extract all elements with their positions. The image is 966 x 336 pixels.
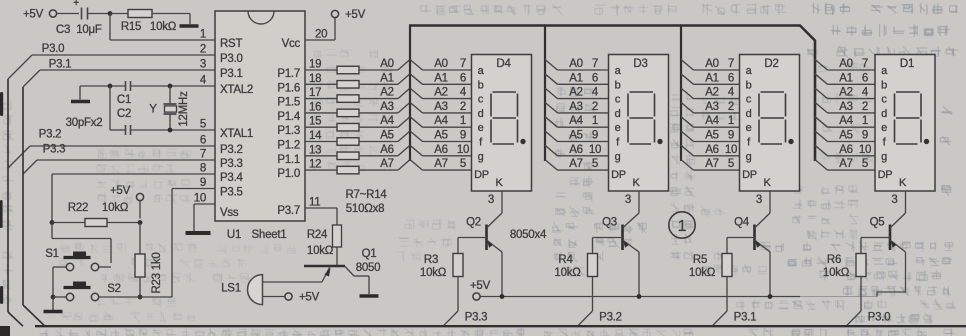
svg-text:g: g bbox=[881, 151, 887, 163]
svg-text:A1: A1 bbox=[839, 72, 853, 84]
svg-text:A7: A7 bbox=[569, 158, 583, 170]
transistor Q4 8050 bbox=[734, 213, 770, 297]
svg-text:e: e bbox=[615, 122, 621, 134]
svg-text:DP: DP bbox=[611, 169, 626, 181]
resistor R15 10k bbox=[121, 10, 190, 34]
svg-text:P3.1: P3.1 bbox=[734, 312, 757, 324]
wire P3.5 pin9 to S2 bbox=[172, 189, 215, 298]
svg-text:10: 10 bbox=[725, 144, 737, 156]
svg-text:9: 9 bbox=[460, 130, 466, 142]
svg-text:4: 4 bbox=[200, 75, 207, 87]
svg-text:P3.3: P3.3 bbox=[43, 144, 66, 156]
resistor R10 bbox=[305, 101, 410, 117]
svg-text:A0: A0 bbox=[434, 58, 448, 70]
svg-text:A2: A2 bbox=[380, 87, 394, 99]
bottom bus P3.0-P3.3 bbox=[35, 325, 966, 327]
7-segment display D1 bbox=[875, 55, 935, 192]
svg-text:DP: DP bbox=[742, 169, 757, 181]
svg-text:A1: A1 bbox=[380, 72, 394, 84]
svg-text:A2: A2 bbox=[434, 87, 448, 99]
svg-text:R4: R4 bbox=[558, 254, 573, 266]
svg-text:+5V: +5V bbox=[345, 9, 366, 21]
svg-text:c: c bbox=[746, 94, 752, 106]
wires bus to display D2 bbox=[681, 58, 740, 170]
svg-text:3: 3 bbox=[200, 59, 206, 71]
svg-text:10: 10 bbox=[859, 144, 871, 156]
svg-text:5: 5 bbox=[592, 158, 598, 170]
svg-text:16: 16 bbox=[309, 101, 321, 113]
svg-text:c: c bbox=[615, 94, 621, 106]
svg-text:10kΩ: 10kΩ bbox=[554, 267, 581, 279]
svg-text:3: 3 bbox=[756, 194, 762, 206]
svg-text:A5: A5 bbox=[380, 130, 394, 142]
svg-text:g: g bbox=[746, 151, 752, 163]
svg-text:P3.2: P3.2 bbox=[39, 129, 62, 141]
pin 3 stub D4 bbox=[488, 191, 502, 213]
svg-text:18: 18 bbox=[309, 73, 321, 85]
svg-text:6: 6 bbox=[592, 72, 598, 84]
wire P3.1 to bottom bus bbox=[712, 311, 756, 326]
svg-text:+5V: +5V bbox=[23, 9, 44, 21]
wire P3.2 to left bus bbox=[8, 129, 215, 169]
svg-text:10kΩ: 10kΩ bbox=[689, 267, 716, 279]
7-segment display D2 bbox=[740, 55, 800, 192]
svg-text:e: e bbox=[478, 122, 484, 134]
svg-text:A7: A7 bbox=[705, 158, 719, 170]
svg-text:10kΩ: 10kΩ bbox=[307, 245, 334, 257]
ground (Q1 collector) bbox=[360, 294, 379, 298]
transistor Q1 8050 bbox=[304, 248, 380, 294]
svg-text:A3: A3 bbox=[434, 101, 448, 113]
pushbutton S1 bbox=[45, 248, 111, 297]
svg-text:4: 4 bbox=[862, 87, 869, 99]
svg-text:A5: A5 bbox=[705, 130, 719, 142]
svg-text:C2: C2 bbox=[117, 108, 131, 120]
svg-text:D4: D4 bbox=[496, 58, 511, 70]
svg-text:P3.0: P3.0 bbox=[42, 43, 65, 55]
+5V rail for digit drivers bbox=[470, 280, 877, 300]
svg-text:Q4: Q4 bbox=[734, 217, 750, 229]
resistor R6 10k bbox=[823, 238, 890, 312]
svg-text:A2: A2 bbox=[839, 87, 853, 99]
svg-text:XTAL1: XTAL1 bbox=[220, 128, 253, 140]
svg-text:3: 3 bbox=[488, 194, 494, 206]
svg-text:19: 19 bbox=[309, 59, 321, 71]
resistor R14 bbox=[305, 158, 410, 174]
svg-text:A0: A0 bbox=[380, 58, 394, 70]
scan artifacts left edge bbox=[0, 92, 10, 336]
svg-text:15: 15 bbox=[309, 116, 321, 128]
svg-text:+5V: +5V bbox=[110, 185, 131, 197]
svg-text:A4: A4 bbox=[839, 115, 853, 127]
svg-text:d: d bbox=[881, 108, 887, 120]
node P3.1 wire bbox=[23, 59, 215, 88]
svg-text:A6: A6 bbox=[380, 144, 394, 156]
svg-text:4: 4 bbox=[460, 87, 467, 99]
svg-text:8050x4: 8050x4 bbox=[510, 229, 547, 241]
resistor R7 bbox=[305, 58, 410, 74]
capacitor C3 10uF bbox=[56, 0, 110, 36]
resistor R8 bbox=[305, 72, 410, 88]
svg-text:Sheet1: Sheet1 bbox=[252, 229, 287, 241]
resistor R13 bbox=[305, 144, 410, 160]
transistor Q2 8050 bbox=[466, 213, 502, 297]
svg-text:A4: A4 bbox=[569, 115, 583, 127]
svg-text:A4: A4 bbox=[380, 115, 394, 127]
label 8050x4 bbox=[510, 229, 547, 241]
svg-text:C3: C3 bbox=[56, 24, 70, 36]
svg-text:A6: A6 bbox=[569, 144, 583, 156]
svg-text:P3.3: P3.3 bbox=[465, 312, 488, 324]
resistor R3 10k bbox=[420, 238, 487, 312]
svg-text:b: b bbox=[615, 79, 621, 91]
svg-text:10kΩ: 10kΩ bbox=[102, 202, 129, 214]
resistor R11 bbox=[305, 115, 410, 131]
svg-text:A1: A1 bbox=[705, 72, 719, 84]
svg-text:R24: R24 bbox=[307, 229, 328, 241]
svg-text:A3: A3 bbox=[569, 101, 583, 113]
svg-text:Q1: Q1 bbox=[362, 248, 377, 260]
svg-text:P1.1: P1.1 bbox=[277, 154, 300, 166]
svg-text:7: 7 bbox=[862, 58, 868, 70]
svg-text:10μF: 10μF bbox=[76, 24, 102, 36]
svg-text:4: 4 bbox=[728, 87, 735, 99]
capacitor C2 30pF bbox=[66, 108, 132, 135]
svg-text:R22: R22 bbox=[68, 202, 88, 214]
svg-text:9: 9 bbox=[592, 130, 598, 142]
svg-text:Vcc: Vcc bbox=[282, 38, 301, 50]
7-segment display D3 bbox=[609, 55, 669, 192]
7-segment display D4 bbox=[472, 55, 532, 192]
label R7~R14 510ohm x8 bbox=[345, 189, 387, 215]
svg-text:S1: S1 bbox=[45, 248, 59, 260]
resistor R24 10k bbox=[307, 225, 342, 265]
svg-text:P1.4: P1.4 bbox=[277, 111, 301, 123]
svg-text:+5V: +5V bbox=[299, 292, 320, 304]
svg-text:7: 7 bbox=[200, 149, 206, 161]
svg-text:4: 4 bbox=[592, 87, 599, 99]
svg-text:P1.6: P1.6 bbox=[277, 82, 300, 94]
svg-text:P3.2: P3.2 bbox=[220, 144, 243, 156]
svg-text:D1: D1 bbox=[900, 58, 914, 70]
pin 3 stub D2 bbox=[756, 191, 770, 213]
svg-text:A0: A0 bbox=[569, 58, 583, 70]
svg-text:A0: A0 bbox=[839, 58, 853, 70]
svg-text:10: 10 bbox=[589, 144, 601, 156]
svg-text:+5V: +5V bbox=[470, 280, 491, 292]
power +5V (reset network) bbox=[23, 9, 79, 21]
svg-text:e: e bbox=[746, 122, 752, 134]
svg-text:10kΩ: 10kΩ bbox=[823, 267, 850, 279]
svg-text:c: c bbox=[478, 94, 484, 106]
svg-text:9: 9 bbox=[200, 177, 206, 189]
svg-text:K: K bbox=[495, 177, 503, 189]
svg-text:2: 2 bbox=[862, 101, 868, 113]
svg-text:A2: A2 bbox=[569, 87, 583, 99]
transistor Q5 8050 bbox=[870, 213, 906, 297]
svg-text:1: 1 bbox=[862, 115, 868, 127]
svg-text:P3.4: P3.4 bbox=[220, 172, 244, 184]
svg-text:12MHz: 12MHz bbox=[178, 91, 190, 127]
svg-text:A3: A3 bbox=[380, 101, 394, 113]
svg-text:P3.0: P3.0 bbox=[220, 53, 243, 65]
svg-text:1: 1 bbox=[728, 115, 734, 127]
svg-text:R7~R14: R7~R14 bbox=[345, 189, 387, 201]
speaker LS1 bbox=[221, 275, 322, 305]
svg-text:14: 14 bbox=[309, 130, 322, 142]
svg-text:S2: S2 bbox=[107, 283, 121, 295]
svg-text:6: 6 bbox=[200, 135, 206, 147]
crystal Y 12MHz bbox=[149, 91, 190, 130]
svg-text:A0: A0 bbox=[705, 58, 719, 70]
ground (crystal) bbox=[71, 100, 90, 104]
svg-text:Y: Y bbox=[149, 104, 157, 116]
svg-text:9: 9 bbox=[728, 130, 734, 142]
svg-text:P3.7: P3.7 bbox=[277, 205, 300, 217]
svg-text:11: 11 bbox=[309, 197, 320, 209]
bus column 3 bbox=[680, 26, 682, 162]
svg-text:RST: RST bbox=[220, 38, 242, 50]
svg-text:P3.3: P3.3 bbox=[220, 158, 243, 170]
svg-text:A7: A7 bbox=[839, 158, 853, 170]
svg-text:A5: A5 bbox=[569, 130, 583, 142]
svg-text:A2: A2 bbox=[705, 87, 719, 99]
svg-text:P3.1: P3.1 bbox=[220, 68, 243, 80]
svg-text:8: 8 bbox=[200, 163, 206, 175]
svg-text:3: 3 bbox=[625, 194, 631, 206]
bus column 2 bbox=[544, 26, 546, 162]
svg-text:20: 20 bbox=[315, 29, 327, 41]
svg-text:e: e bbox=[881, 122, 887, 134]
wire P3.4 pin8 to R22/S1 bbox=[52, 174, 215, 223]
svg-text:DP: DP bbox=[474, 169, 489, 181]
svg-text:A5: A5 bbox=[839, 130, 853, 142]
wire R22 node to S1 bbox=[52, 223, 111, 264]
svg-text:7: 7 bbox=[728, 58, 734, 70]
resistor R5 10k bbox=[689, 238, 755, 312]
svg-text:10kΩ: 10kΩ bbox=[150, 21, 177, 33]
svg-text:g: g bbox=[478, 151, 484, 163]
svg-text:P1.2: P1.2 bbox=[277, 140, 300, 152]
svg-text:1: 1 bbox=[460, 115, 466, 127]
wire Vss pin10 to ground bbox=[194, 204, 215, 231]
svg-text:D2: D2 bbox=[764, 58, 778, 70]
svg-text:c: c bbox=[881, 94, 887, 106]
svg-text:5: 5 bbox=[460, 158, 466, 170]
wire P3.7 pin11 to R24 bbox=[305, 208, 337, 225]
svg-text:b: b bbox=[478, 79, 484, 91]
resistor R4 10k bbox=[554, 238, 622, 312]
capacitor C1 30pF bbox=[117, 81, 131, 106]
svg-text:LS1: LS1 bbox=[221, 283, 241, 295]
svg-text:K: K bbox=[632, 177, 640, 189]
svg-text:A6: A6 bbox=[434, 144, 448, 156]
svg-text:5: 5 bbox=[728, 158, 734, 170]
svg-text:2: 2 bbox=[592, 101, 598, 113]
svg-text:3: 3 bbox=[891, 194, 897, 206]
svg-text:R6: R6 bbox=[827, 254, 841, 266]
svg-text:+: + bbox=[73, 0, 79, 9]
svg-text:P3.2: P3.2 bbox=[599, 312, 622, 324]
node P3.0 wire bbox=[8, 43, 215, 79]
svg-text:6: 6 bbox=[460, 72, 466, 84]
svg-text:P3.0: P3.0 bbox=[868, 312, 891, 324]
svg-text:D3: D3 bbox=[633, 58, 647, 70]
svg-text:A4: A4 bbox=[705, 115, 719, 127]
transistor Q3 8050 bbox=[602, 213, 639, 297]
svg-text:XTAL2: XTAL2 bbox=[220, 84, 253, 96]
svg-text:Q2: Q2 bbox=[466, 217, 481, 229]
svg-text:P1.5: P1.5 bbox=[277, 97, 300, 109]
svg-text:7: 7 bbox=[460, 58, 466, 70]
svg-text:A6: A6 bbox=[839, 144, 853, 156]
left bus outer P3.0/P3.2 bbox=[8, 79, 23, 326]
pin 3 stub D3 bbox=[625, 191, 639, 213]
svg-text:g: g bbox=[615, 151, 621, 163]
microcontroller U1 AT89C2051 bbox=[194, 11, 322, 241]
svg-text:2: 2 bbox=[460, 101, 466, 113]
top bus wire A0-A7 bbox=[409, 26, 815, 162]
wire P3.3 to bottom bus bbox=[443, 311, 487, 326]
bus column 1 bbox=[409, 26, 411, 162]
svg-text:K: K bbox=[763, 177, 771, 189]
svg-text:A1: A1 bbox=[434, 72, 448, 84]
svg-text:1: 1 bbox=[592, 115, 598, 127]
svg-text:2: 2 bbox=[200, 44, 206, 56]
wire RST to pin1 bbox=[110, 39, 215, 41]
svg-text:6: 6 bbox=[862, 72, 868, 84]
svg-text:P1.7: P1.7 bbox=[277, 68, 300, 80]
wire P3.0 to bottom bus bbox=[846, 311, 890, 326]
svg-text:A3: A3 bbox=[705, 101, 719, 113]
svg-text:A6: A6 bbox=[705, 144, 719, 156]
svg-text:P3.5: P3.5 bbox=[220, 187, 243, 199]
svg-text:Q5: Q5 bbox=[870, 217, 885, 229]
svg-text:7: 7 bbox=[592, 58, 598, 70]
svg-text:17: 17 bbox=[309, 87, 321, 99]
svg-text:12: 12 bbox=[309, 159, 321, 171]
wires bus to display D3 bbox=[545, 58, 609, 170]
svg-text:A7: A7 bbox=[434, 158, 448, 170]
svg-text:2: 2 bbox=[728, 101, 734, 113]
power +5V (Vcc) bbox=[305, 9, 366, 41]
pushbutton S2 bbox=[51, 282, 172, 301]
svg-text:R3: R3 bbox=[424, 254, 438, 266]
svg-text:510Ωx8: 510Ωx8 bbox=[346, 203, 384, 215]
svg-text:P1.3: P1.3 bbox=[277, 125, 300, 137]
node crystal top bbox=[168, 84, 173, 104]
svg-text:U1: U1 bbox=[227, 229, 241, 241]
svg-text:A3: A3 bbox=[839, 101, 853, 113]
svg-text:A5: A5 bbox=[434, 130, 448, 142]
svg-text:30pFx2: 30pFx2 bbox=[66, 117, 103, 129]
resistor R22 10k bbox=[50, 202, 140, 227]
node RST junction bbox=[108, 11, 128, 40]
callout circle 1 bbox=[669, 212, 695, 238]
svg-text:b: b bbox=[746, 79, 752, 91]
svg-text:R5: R5 bbox=[693, 254, 707, 266]
svg-text:P3.1: P3.1 bbox=[49, 59, 72, 71]
node XTAL2 junction bbox=[108, 84, 113, 130]
svg-text:1: 1 bbox=[200, 29, 206, 41]
left bus inner P3.1/P3.3 bbox=[23, 87, 45, 326]
svg-text:13: 13 bbox=[309, 144, 321, 156]
svg-text:10: 10 bbox=[194, 193, 206, 205]
svg-text:R23 1k0: R23 1k0 bbox=[151, 252, 163, 293]
svg-text:d: d bbox=[478, 108, 484, 120]
resistor R9 bbox=[305, 87, 410, 103]
pin 3 stub D1 bbox=[891, 191, 905, 213]
svg-text:6: 6 bbox=[728, 72, 734, 84]
svg-text:A4: A4 bbox=[434, 115, 448, 127]
svg-text:A1: A1 bbox=[569, 72, 583, 84]
ground (Vss) bbox=[186, 231, 211, 235]
crystal oscillator group bbox=[80, 86, 215, 100]
ground (R15) bbox=[180, 24, 199, 28]
svg-text:d: d bbox=[746, 108, 752, 120]
wire P3.3 to left bus bbox=[23, 144, 215, 175]
wires bus to display D4 bbox=[410, 58, 472, 170]
svg-text:9: 9 bbox=[862, 130, 868, 142]
svg-text:10: 10 bbox=[457, 144, 469, 156]
svg-text:A7: A7 bbox=[380, 158, 394, 170]
svg-text:b: b bbox=[881, 79, 887, 91]
svg-text:1: 1 bbox=[678, 218, 687, 235]
svg-text:d: d bbox=[615, 108, 621, 120]
svg-text:10kΩ: 10kΩ bbox=[420, 267, 447, 279]
svg-text:8050: 8050 bbox=[356, 262, 381, 274]
svg-text:R15: R15 bbox=[121, 21, 141, 33]
svg-text:C1: C1 bbox=[117, 94, 131, 106]
svg-text:Q3: Q3 bbox=[602, 217, 617, 229]
svg-text:DP: DP bbox=[878, 169, 893, 181]
power +5V (R22) bbox=[110, 185, 144, 225]
svg-text:P1.0: P1.0 bbox=[277, 168, 300, 180]
resistor R12 bbox=[305, 130, 410, 146]
wire XTAL1 pin5 bbox=[110, 128, 215, 133]
resistor R23 1k0 bbox=[135, 223, 163, 300]
wires bus to display D1 bbox=[815, 58, 875, 170]
svg-text:Vss: Vss bbox=[220, 207, 239, 219]
svg-text:5: 5 bbox=[200, 119, 206, 131]
svg-text:K: K bbox=[899, 177, 907, 189]
ground (S1/S2) bbox=[44, 297, 63, 312]
wire P3.2 to bottom bus bbox=[578, 311, 622, 326]
svg-text:5: 5 bbox=[862, 158, 868, 170]
